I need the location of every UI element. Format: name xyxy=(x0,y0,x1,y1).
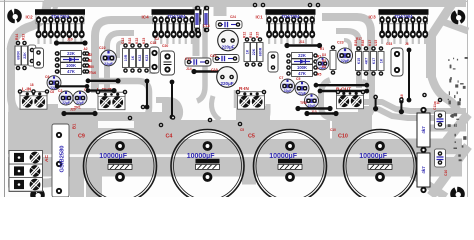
svg-text:1K: 1K xyxy=(245,49,249,54)
resistor R27 4k7 xyxy=(417,113,430,147)
wire trace xyxy=(381,22,383,44)
svg-text:C2: C2 xyxy=(58,89,62,93)
resistor K23 vertical xyxy=(144,43,150,73)
wire trace xyxy=(11,2,47,50)
wire to L-OUT xyxy=(88,80,118,82)
capacitor C20 box xyxy=(161,51,175,75)
svg-text:15: 15 xyxy=(310,15,314,19)
board edge right xyxy=(467,0,469,197)
capacitor C24 xyxy=(435,111,446,129)
capacitor C1 box xyxy=(34,48,44,68)
svg-text:R12: R12 xyxy=(243,32,247,38)
capacitor C22 xyxy=(101,50,117,66)
svg-text:10000µF: 10000µF xyxy=(359,153,387,160)
svg-text:C22: C22 xyxy=(99,46,106,50)
wire trace xyxy=(274,22,276,44)
svg-text:C14: C14 xyxy=(203,24,210,28)
svg-text:C5: C5 xyxy=(296,77,300,81)
wire trace xyxy=(95,20,152,93)
svg-text:C2: C2 xyxy=(155,37,159,41)
svg-text:R1: R1 xyxy=(320,47,324,51)
wire trace xyxy=(429,114,468,163)
resistor R12 vertical xyxy=(244,37,250,67)
svg-text:C10: C10 xyxy=(330,128,336,132)
svg-text:4k7: 4k7 xyxy=(421,166,426,174)
wire trace xyxy=(431,74,458,114)
svg-text:IC4: IC4 xyxy=(142,15,150,20)
svg-text:K22: K22 xyxy=(138,55,142,62)
wire trace xyxy=(60,120,76,136)
svg-text:U6: U6 xyxy=(92,71,96,75)
capacitor C18 box xyxy=(150,47,159,73)
svg-text:AC: AC xyxy=(44,155,50,162)
wire trace xyxy=(406,22,408,44)
fiducial top-right xyxy=(451,9,466,25)
wire trace xyxy=(97,81,149,119)
svg-text:C10: C10 xyxy=(444,170,448,176)
svg-text:K23: K23 xyxy=(142,38,146,44)
svg-text:C6: C6 xyxy=(45,75,49,79)
ground pour band xyxy=(8,139,462,177)
svg-text:R11: R11 xyxy=(249,32,253,38)
capacitor C6 xyxy=(47,76,61,90)
svg-text:R14: R14 xyxy=(15,34,19,40)
wire trace xyxy=(322,17,371,92)
wire trace xyxy=(268,22,270,44)
svg-text:R3: R3 xyxy=(322,59,326,63)
wire trace xyxy=(44,0,466,7)
tiny ref labels xyxy=(30,15,440,132)
svg-text:J14: J14 xyxy=(186,67,192,71)
IC2 leads xyxy=(39,21,82,31)
wire trace xyxy=(431,146,468,196)
wire W3 xyxy=(57,85,87,87)
capacitor C11 xyxy=(305,94,319,108)
svg-text:R15: R15 xyxy=(256,32,260,38)
wire trace xyxy=(185,22,187,44)
wire trace xyxy=(166,22,168,44)
svg-text:15: 15 xyxy=(423,15,427,19)
jumper wire xyxy=(64,112,95,115)
wire trace xyxy=(11,46,44,130)
svg-text:C5: C5 xyxy=(240,128,244,132)
svg-text:U15: U15 xyxy=(374,40,378,46)
wire trace xyxy=(293,22,295,44)
capacitor C5b xyxy=(295,81,309,95)
resistor R11 vertical xyxy=(251,37,257,67)
svg-text:C23: C23 xyxy=(337,41,344,45)
wire trace xyxy=(48,0,56,20)
wire stub W1 xyxy=(375,97,377,109)
resistor vertical xyxy=(378,46,384,76)
resistor K22 vertical xyxy=(137,43,143,73)
resistor C12 vertical xyxy=(123,43,129,73)
wire trace xyxy=(358,102,466,111)
svg-text:C15: C15 xyxy=(185,57,191,61)
capacitor C19 220uF xyxy=(217,67,238,88)
IC4 leads xyxy=(155,21,198,31)
wire trace xyxy=(234,90,239,108)
svg-text:R80: R80 xyxy=(88,65,94,69)
resistor R2 horizontal xyxy=(55,51,87,57)
capacitor C25 xyxy=(435,149,446,167)
wire trace xyxy=(305,22,307,44)
jumper wire xyxy=(287,44,320,47)
wire trace xyxy=(399,22,401,44)
resistor R21 dark vertical xyxy=(204,6,209,33)
svg-text:IC3: IC3 xyxy=(369,15,377,20)
resistor vertical xyxy=(371,46,377,76)
fiducial top-left xyxy=(7,8,22,24)
capacitor C17 xyxy=(316,57,329,70)
svg-text:C20: C20 xyxy=(162,44,168,48)
resistor R15 vertical xyxy=(257,37,263,67)
svg-text:K15: K15 xyxy=(357,58,361,65)
wire trace xyxy=(80,22,82,44)
wire trace xyxy=(431,4,452,36)
wire trace xyxy=(118,42,124,58)
wire trace xyxy=(430,125,466,132)
wire trace xyxy=(56,22,58,44)
op-amp IC1 (TDA7294) body xyxy=(266,9,316,15)
wire trace xyxy=(37,22,39,44)
resistor R1 horizontal xyxy=(286,53,318,59)
IC1 pin row 2 (even pins) xyxy=(266,30,315,38)
wire trace xyxy=(214,3,227,16)
jumper wire xyxy=(194,70,222,73)
capacitor C15 film xyxy=(185,58,211,66)
wire trace xyxy=(212,96,220,120)
svg-text:J10: J10 xyxy=(67,38,73,42)
svg-text:4K7: 4K7 xyxy=(364,58,368,65)
op-amp IC3 (TDA7294) body xyxy=(379,9,429,15)
svg-text:C7: C7 xyxy=(279,76,283,80)
resistor vertical xyxy=(15,41,21,71)
resistor R5 horizontal xyxy=(286,71,318,77)
fiducial bottom-right xyxy=(450,186,465,202)
svg-text:C10: C10 xyxy=(338,134,348,140)
svg-text:1K: 1K xyxy=(131,55,135,60)
jumper wire xyxy=(57,42,86,45)
vertical jumper J15 xyxy=(408,50,410,100)
svg-text:C8: C8 xyxy=(50,90,54,94)
wire trace xyxy=(424,22,426,44)
wire trace xyxy=(193,0,200,56)
svg-text:22K: 22K xyxy=(252,48,256,55)
svg-text:C19: C19 xyxy=(211,68,218,72)
svg-text:TDA7294: TDA7294 xyxy=(282,14,301,19)
capacitor C10 10000uF xyxy=(344,130,417,203)
svg-text:47K: 47K xyxy=(67,69,75,74)
connector L-IN xyxy=(20,92,47,109)
svg-text:D2: D2 xyxy=(88,53,92,57)
wire trace xyxy=(344,40,350,62)
wire trace xyxy=(44,128,52,144)
wire trace xyxy=(154,22,156,44)
IC3 pin row 2 (even pins) xyxy=(379,30,428,38)
wire trace xyxy=(280,22,282,44)
wire trace xyxy=(418,22,420,44)
svg-text:A2: A2 xyxy=(84,47,88,51)
op-amp IC4 (TDA7294) body xyxy=(152,9,202,15)
resistor vertical xyxy=(22,41,28,71)
svg-text:R8: R8 xyxy=(88,59,92,63)
capacitor C8 xyxy=(73,91,87,105)
capacitor C3 box xyxy=(268,52,278,72)
wire trace xyxy=(160,22,162,44)
svg-text:100K: 100K xyxy=(66,63,76,68)
svg-text:18: 18 xyxy=(30,83,34,87)
svg-text:4k7: 4k7 xyxy=(421,126,426,134)
svg-text:22K: 22K xyxy=(67,51,75,56)
IC3 pin row 1 (pins 1-15 odd) xyxy=(379,16,427,23)
jumper wire xyxy=(298,107,330,110)
svg-text:K17: K17 xyxy=(372,58,376,65)
wire trace xyxy=(412,22,414,44)
svg-text:1K: 1K xyxy=(379,58,383,63)
IC1 pin row 1 (pins 1-15 odd) xyxy=(266,16,314,23)
svg-text:10000µF: 10000µF xyxy=(187,153,215,160)
board edge left xyxy=(4,0,6,197)
print noise right edge xyxy=(448,57,468,161)
svg-text:GSIB2580: GSIB2580 xyxy=(60,145,66,172)
svg-text:15: 15 xyxy=(79,15,83,19)
svg-text:R48: R48 xyxy=(361,40,365,46)
wire trace xyxy=(68,22,70,44)
wire trace xyxy=(74,22,76,44)
svg-text:R22: R22 xyxy=(128,38,132,44)
connector L-OUT xyxy=(98,92,125,109)
svg-text:R5: R5 xyxy=(322,65,326,69)
wire trace xyxy=(8,152,62,183)
wire trace xyxy=(50,22,52,44)
svg-text:D3: D3 xyxy=(322,53,326,57)
svg-text:R19: R19 xyxy=(354,40,358,46)
wire trace xyxy=(191,22,193,44)
wire trace xyxy=(358,109,442,118)
wire trace xyxy=(179,22,181,44)
connector AC (3-pole) xyxy=(9,151,43,192)
svg-text:TDA7294: TDA7294 xyxy=(168,14,187,19)
vertical wires below xyxy=(146,81,148,107)
svg-text:22K: 22K xyxy=(298,53,306,58)
resistor vertical xyxy=(330,45,336,75)
wire trace xyxy=(299,22,301,44)
svg-text:10000µF: 10000µF xyxy=(99,153,127,160)
svg-text:C9: C9 xyxy=(78,134,85,140)
svg-text:TDA7294: TDA7294 xyxy=(395,14,414,19)
svg-text:K22: K22 xyxy=(135,38,139,44)
board edge top xyxy=(0,0,474,2)
resistor vertical xyxy=(356,46,362,76)
svg-text:C18: C18 xyxy=(150,41,156,45)
capacitor C14 film xyxy=(216,21,242,29)
svg-text:TDA7294: TDA7294 xyxy=(51,14,70,19)
svg-text:L-IN: L-IN xyxy=(22,87,32,93)
wire trace xyxy=(336,31,359,88)
wire trace xyxy=(311,22,313,44)
svg-text:K23: K23 xyxy=(145,55,149,62)
svg-text:680R: 680R xyxy=(258,47,262,56)
svg-text:TR2: TR2 xyxy=(300,101,307,105)
svg-text:10R: 10R xyxy=(124,54,128,61)
op-amp IC2 (TDA7294) body xyxy=(35,9,85,15)
svg-text:IC2: IC2 xyxy=(26,15,34,20)
capacitor C2 xyxy=(59,91,73,105)
capacitor C16 film xyxy=(213,55,239,63)
wire trace xyxy=(43,22,45,44)
IC3 leads xyxy=(382,21,425,31)
svg-text:R11: R11 xyxy=(434,101,440,105)
IC4 pin row 2 (even pins) xyxy=(152,30,201,38)
wire trace xyxy=(438,20,468,31)
IC4 pin row 1 (pins 1-15 odd) xyxy=(152,16,200,23)
wire trace xyxy=(107,33,134,90)
IC2 pin row 2 (even pins) xyxy=(36,30,85,38)
big cap interiors (white above band) xyxy=(95,129,404,139)
capacitor C2a box xyxy=(28,45,36,66)
capacitor C9 10000uF xyxy=(84,130,157,203)
wire trace xyxy=(8,98,14,166)
capacitor C7 xyxy=(281,79,295,93)
wire trace xyxy=(321,80,372,118)
resistor R20 dark vertical xyxy=(195,6,200,33)
capacitor C13 220uF xyxy=(218,30,239,51)
resistor R22 vertical xyxy=(130,43,136,73)
svg-text:22K: 22K xyxy=(23,52,27,59)
wire trace xyxy=(156,100,180,122)
svg-text:C4: C4 xyxy=(166,134,173,140)
diode D2 xyxy=(55,57,87,62)
wires to R-OUT xyxy=(316,84,367,86)
wire trace xyxy=(393,22,395,44)
wire trace xyxy=(286,22,288,44)
svg-text:47K: 47K xyxy=(298,71,306,76)
svg-text:C5: C5 xyxy=(248,134,255,140)
wire trace xyxy=(426,34,436,78)
svg-text:J20: J20 xyxy=(70,108,76,112)
svg-text:J6: J6 xyxy=(405,42,409,46)
capacitor C23 box xyxy=(391,48,403,76)
wire trace xyxy=(172,22,174,44)
wire trace xyxy=(412,174,446,197)
wire trace xyxy=(62,22,64,44)
resistor R8 horizontal xyxy=(55,63,87,69)
capacitor C5 10000uF xyxy=(254,130,327,203)
fiducial bottom-left xyxy=(30,187,45,203)
wire trace xyxy=(149,60,156,74)
svg-text:R5: R5 xyxy=(317,72,321,76)
svg-text:C16: C16 xyxy=(210,54,217,58)
svg-text:J11: J11 xyxy=(299,40,305,44)
resistor R3 horizontal xyxy=(286,65,318,71)
IC1 leads xyxy=(269,21,312,31)
wire stub W2 xyxy=(400,102,402,112)
capacitor C23 xyxy=(337,48,352,63)
svg-text:IC1: IC1 xyxy=(256,15,264,20)
wire trace xyxy=(197,22,199,44)
svg-text:100K: 100K xyxy=(297,65,307,70)
svg-text:C24: C24 xyxy=(230,15,236,19)
jumper wire xyxy=(307,112,336,115)
connector R-IN xyxy=(238,92,265,109)
resistor R10 horizontal xyxy=(55,69,87,75)
svg-text:R13: R13 xyxy=(22,34,26,40)
resistor vertical xyxy=(363,46,369,76)
wire trace xyxy=(197,24,205,101)
svg-text:K17: K17 xyxy=(368,40,372,46)
svg-text:B1: B1 xyxy=(72,123,77,129)
wire trace xyxy=(387,22,389,44)
resistor R28 4k7 xyxy=(417,153,430,187)
svg-text:C23: C23 xyxy=(386,42,392,46)
rectifier B1 (GSIB2580) xyxy=(52,123,77,197)
diode D3 xyxy=(286,59,318,64)
svg-text:680R: 680R xyxy=(16,51,20,60)
IC2 pin row 1 (pins 1-15 odd) xyxy=(36,16,84,23)
wire trace xyxy=(240,104,268,123)
capacitor C4 10000uF xyxy=(171,130,244,203)
svg-text:10000µF: 10000µF xyxy=(269,153,297,160)
svg-text:R-IN: R-IN xyxy=(239,86,249,92)
misc pads xyxy=(18,3,443,128)
connector R-OUT xyxy=(337,91,364,108)
svg-text:C12: C12 xyxy=(121,38,125,44)
